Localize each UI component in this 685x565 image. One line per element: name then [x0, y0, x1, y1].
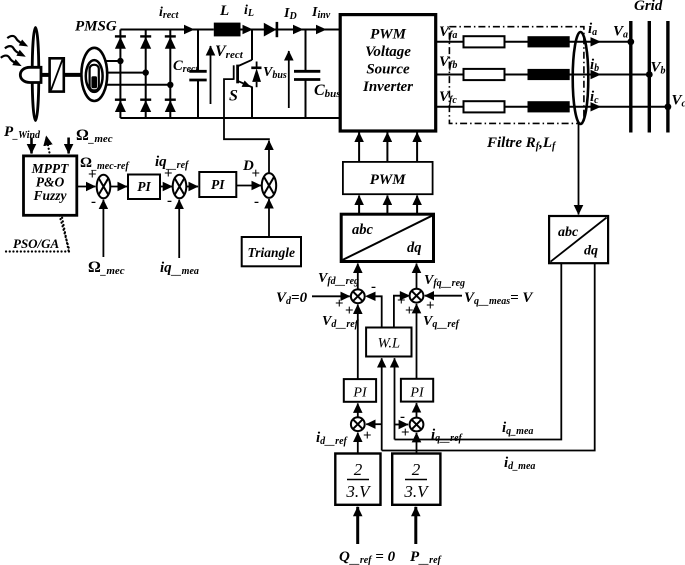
arrow i_L: [243, 25, 254, 34]
svg-text:S: S: [229, 88, 238, 105]
svg-text:irect: irect: [159, 5, 180, 21]
shaft gearbox-PMSG: [64, 73, 83, 77]
wire J3 up to gate: [268, 141, 270, 173]
wire MPPT-J1: [77, 186, 96, 188]
arrow V_fq_reg into abcdq: [416, 264, 418, 289]
svg-text:Crect: Crect: [173, 58, 199, 75]
svg-text:Va: Va: [613, 24, 628, 41]
wire WL-JA: [368, 296, 382, 327]
svg-text:+: +: [252, 166, 261, 182]
grid bus bar 2: [648, 21, 651, 133]
svg-text:PSO/GA: PSO/GA: [13, 236, 60, 251]
svg-text:+: +: [363, 428, 372, 444]
arrow abcdq-PWM 3: [416, 196, 418, 214]
summer JC: [410, 289, 424, 303]
svg-text:iL: iL: [244, 3, 254, 19]
shaft hub-gearbox: [40, 73, 50, 77]
arrow PWM-inverter 3: [416, 133, 418, 162]
svg-text:iq__mea: iq__mea: [160, 260, 199, 277]
svg-text:-: -: [254, 194, 259, 210]
filter dash-dot box: [449, 27, 584, 124]
svg-text:+: +: [164, 166, 173, 182]
svg-text:Source: Source: [366, 62, 410, 78]
turbine blade: [32, 28, 39, 121]
node leg2: [143, 69, 149, 75]
rectifier leg 2: [145, 30, 147, 119]
wire i_q_mea horizontal: [395, 264, 562, 440]
node leg1: [117, 58, 123, 64]
svg-text:dq: dq: [584, 244, 598, 259]
svg-text:-: -: [371, 279, 376, 295]
inductor Lf phase c: [528, 101, 570, 112]
dotted line MPPT-PSO: [60, 216, 70, 251]
svg-text:iq__ref: iq__ref: [431, 427, 464, 444]
diode antiparallel: [251, 62, 261, 88]
diode D3: [165, 36, 176, 48]
svg-text:Vbus: Vbus: [263, 65, 287, 81]
wire iqmea-JD: [395, 424, 409, 426]
wire PI1-J2: [160, 186, 172, 188]
svg-text:PMSG: PMSG: [75, 19, 117, 35]
node leg3: [167, 82, 173, 88]
arrow JB-PId: [357, 403, 359, 416]
svg-text:Vb: Vb: [651, 60, 666, 77]
svg-text:Vrect: Vrect: [215, 43, 244, 61]
rectifier leg 3: [169, 30, 171, 119]
svg-text:Vd__ref: Vd__ref: [322, 314, 360, 330]
svg-text:Vfc: Vfc: [439, 89, 457, 106]
svg-text:Q__ref = 0: Q__ref = 0: [339, 549, 396, 565]
svg-text:3.V: 3.V: [403, 482, 430, 501]
diode I_D: [264, 22, 277, 37]
svg-text:id_mea: id_mea: [504, 455, 535, 472]
svg-text:Vq__meas= V: Vq__meas= V: [464, 290, 534, 307]
svg-text:Vd=0: Vd=0: [276, 290, 308, 307]
dotted underline PSO: [6, 250, 70, 252]
wire iq feedback vertical: [394, 358, 396, 439]
arrow Triangle-J3: [268, 199, 270, 237]
summer JA: [351, 289, 365, 303]
arrow P_ref input: [414, 507, 417, 544]
arrow V_rect: [210, 46, 212, 104]
svg-text:iq_mea: iq_mea: [502, 420, 533, 437]
wire Vd0-JA: [312, 295, 350, 297]
svg-text:Cbus: Cbus: [314, 82, 341, 100]
svg-text:Vfb: Vfb: [439, 54, 457, 71]
gearbox: [50, 58, 64, 91]
resistor Rf phase c: [464, 101, 505, 112]
svg-text:Inverter: Inverter: [362, 79, 413, 95]
wire WL-JC: [394, 296, 407, 327]
svg-text:ic: ic: [590, 89, 599, 106]
label MPPT text: [31, 161, 69, 203]
summer JD: [410, 418, 424, 432]
svg-text:2: 2: [412, 460, 421, 479]
PI controller 2: [199, 172, 236, 197]
node V_a: [627, 38, 634, 45]
wire phase b PMSG-rectifier: [107, 72, 146, 74]
wire L-inverter rail: [240, 29, 342, 31]
svg-text:W.L: W.L: [378, 336, 400, 352]
wire gate drive: [224, 79, 270, 139]
svg-text:-: -: [167, 193, 172, 209]
arrow Q_ref input: [356, 507, 359, 544]
grid bus bar 3: [666, 21, 669, 133]
resistor Rf phase a: [464, 36, 505, 47]
arrow sensor-abcdq right: [578, 124, 580, 215]
PI controller 1: [128, 175, 160, 200]
svg-text:PI: PI: [352, 386, 368, 401]
summer J3: [262, 173, 276, 198]
svg-text:3.V: 3.V: [345, 482, 372, 501]
arrow abcdq-PWM 1: [358, 196, 360, 214]
svg-text:-: -: [400, 409, 405, 425]
resistor Rf phase b: [464, 69, 505, 80]
arrow i_rect: [184, 25, 195, 34]
rectifier leg 1: [119, 30, 121, 119]
abc/dq transform left: [341, 214, 433, 261]
arrow PWM-inverter 1: [358, 133, 360, 162]
arrow V_bus: [288, 51, 290, 108]
capacitor C_bus: [294, 30, 320, 119]
svg-text:PI: PI: [211, 177, 225, 192]
arrow PWM-inverter 2: [386, 133, 388, 162]
svg-text:+: +: [345, 303, 354, 319]
svg-text:2: 2: [354, 460, 363, 479]
svg-text:id__ref: id__ref: [316, 430, 349, 447]
block 2/3V left: [335, 454, 380, 505]
wire phase b inverter-grid: [436, 74, 650, 76]
arrow Vq_ref PIright-JC: [416, 304, 418, 379]
arrow i_a: [591, 37, 602, 46]
node V_b: [646, 71, 653, 78]
block W.L: [366, 328, 411, 357]
abc/dq transform right: [549, 216, 608, 263]
PWM block: [343, 162, 433, 194]
arrow after diode: [293, 25, 304, 34]
wire Vq_meas-JC: [425, 295, 462, 297]
arrow P_Wind input: [30, 138, 33, 154]
arrow Vd_ref PIleft-JA: [357, 305, 359, 379]
inductor L: [214, 23, 241, 37]
arrow i_c: [591, 102, 602, 111]
svg-text:Vfq__reg: Vfq__reg: [424, 273, 465, 289]
svg-text:Grid: Grid: [634, 0, 663, 14]
svg-text:Ω_mec: Ω_mec: [88, 259, 125, 277]
svg-text:+: +: [405, 303, 414, 319]
PI controller d: [344, 379, 376, 402]
turbine hub: [20, 67, 41, 82]
diode D1: [115, 36, 126, 48]
arrow omega_mec input: [67, 138, 70, 154]
svg-text:PI: PI: [409, 386, 425, 401]
transistor S: [234, 60, 252, 118]
bottom rail: [120, 117, 341, 119]
diode D2: [140, 36, 151, 48]
wire id feedback vertical: [381, 358, 383, 450]
svg-text:P__ref: P__ref: [410, 549, 443, 565]
block 2/3V right: [392, 454, 440, 505]
svg-text:+: +: [335, 296, 344, 312]
svg-text:Fuzzy: Fuzzy: [32, 188, 67, 203]
PI controller q: [401, 379, 433, 402]
summer JB: [351, 417, 365, 431]
wire phase a inverter-grid: [436, 41, 631, 43]
label inverter text: [362, 27, 413, 96]
svg-text:P_Wind: P_Wind: [4, 124, 41, 141]
diode D4: [115, 100, 126, 112]
svg-text:Filtre Rf,Lf: Filtre Rf,Lf: [486, 135, 557, 152]
wire idmea-JB: [366, 423, 382, 425]
MPPT block: [24, 156, 77, 215]
arrow abcdq-PWM 2: [386, 196, 388, 214]
arrow JD-PIq: [416, 403, 418, 417]
arrow I_inv: [316, 25, 327, 34]
svg-text:-: -: [91, 194, 96, 210]
arrow V_fd_reg into abcdq: [357, 264, 359, 290]
wind arrow 3: [1, 56, 22, 67]
svg-text:Iinv: Iinv: [311, 5, 331, 21]
inductor Lf phase a: [528, 36, 570, 47]
svg-text:ia: ia: [588, 21, 597, 38]
wire phase c PMSG-rectifier: [105, 84, 170, 86]
svg-text:+: +: [88, 167, 97, 183]
svg-text:dq: dq: [407, 240, 422, 256]
svg-text:PWM: PWM: [370, 27, 407, 43]
svg-text:abc: abc: [352, 222, 374, 238]
arrow iqref-JD: [416, 433, 418, 453]
rectifier top rail: [120, 29, 213, 31]
svg-text:PI: PI: [137, 179, 151, 194]
arrow omega_mec feedback: [102, 200, 104, 257]
svg-text:L: L: [219, 3, 229, 19]
grid bus bar 1: [629, 21, 632, 133]
wire J1-PI1: [110, 186, 127, 188]
svg-text:ib: ib: [590, 57, 599, 74]
svg-text:Voltage: Voltage: [365, 44, 411, 60]
node V_c: [665, 103, 672, 110]
capacitor C_rect: [189, 30, 206, 119]
wire J2-PI2: [186, 186, 198, 188]
dotted arrow PSO-MPPT: [46, 136, 68, 251]
svg-text:+: +: [426, 298, 435, 314]
diode D5: [140, 100, 151, 112]
arrow i_b: [591, 70, 602, 79]
wind arrow 2: [5, 46, 26, 57]
summer J2: [173, 175, 187, 199]
transistor S collector wire: [251, 30, 253, 61]
Triangle block: [242, 237, 301, 266]
svg-text:ID: ID: [283, 6, 297, 22]
svg-text:Ω_mec: Ω_mec: [76, 127, 113, 145]
wind arrow 1: [7, 36, 28, 47]
svg-text:abc: abc: [558, 225, 579, 240]
inverter U1 box: [340, 15, 436, 131]
current sensor ellipse: [573, 32, 589, 124]
wire i_d_mea horizontal: [382, 264, 595, 451]
svg-text:Vfd__reg: Vfd__reg: [318, 271, 359, 287]
diode D6: [165, 100, 176, 112]
wire PI2-J3: [236, 185, 261, 187]
summer J1: [97, 175, 111, 199]
svg-text:Triangle: Triangle: [248, 245, 296, 260]
PMSG generator: [81, 48, 107, 101]
wire phase c inverter-grid: [436, 106, 668, 108]
wire phase a PMSG-rectifier: [105, 60, 120, 62]
svg-text:PWM: PWM: [370, 172, 407, 188]
arrow iq_mea feedback: [178, 200, 180, 258]
inductor Lf phase b: [528, 69, 570, 80]
svg-text:Vq__ref: Vq__ref: [423, 314, 461, 330]
arrow idref-JB: [357, 433, 359, 453]
svg-text:Vc: Vc: [672, 93, 685, 110]
